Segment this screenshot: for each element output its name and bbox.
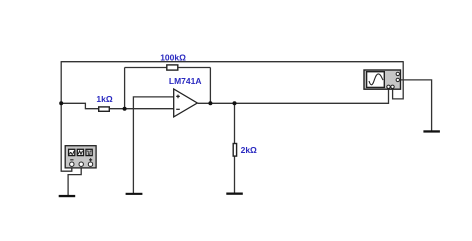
resistor 2k body xyxy=(233,144,236,157)
oscilloscope xyxy=(364,70,401,89)
node output feedback junction xyxy=(208,101,212,105)
wire feedback riser from inverting node xyxy=(124,68,126,109)
resistor 1k body xyxy=(99,107,110,111)
node input rail junction xyxy=(59,101,63,105)
svg-text:100kΩ: 100kΩ xyxy=(160,52,186,62)
ground under 2k resistor xyxy=(226,193,243,195)
op-amp LM741A triangle xyxy=(174,89,198,117)
wire scope ground terminal to right ground xyxy=(401,80,432,131)
wire rail to function generator minus terminal xyxy=(61,165,72,171)
wire feedback top horizontal through 100k xyxy=(125,67,211,69)
wire top horizontal from input rail to scope channel B xyxy=(61,61,403,63)
ground under op-amp non-inverting input xyxy=(126,193,143,195)
wire function generator common terminal to ground xyxy=(68,165,81,195)
wire feedback drop to output node xyxy=(209,68,211,104)
node output load junction xyxy=(233,101,237,105)
wire left input rail vertical xyxy=(60,61,62,171)
wire input jog to 1k resistor and op-amp inverting input xyxy=(61,103,174,108)
wire output to scope channel A xyxy=(198,88,389,104)
svg-text:2kΩ: 2kΩ xyxy=(241,145,257,155)
node inverting input junction xyxy=(123,107,127,111)
wire non-inverting input to ground xyxy=(133,97,174,194)
svg-text:LM741A: LM741A xyxy=(169,76,202,86)
svg-text:1kΩ: 1kΩ xyxy=(96,94,112,104)
ground under scope xyxy=(423,130,440,132)
function generator xyxy=(65,146,96,168)
resistor 100k body xyxy=(167,65,178,70)
wire scope channel B drop (right vertical, jog to bottom-right terminal) xyxy=(393,61,404,99)
wire 2k branch from output node to ground xyxy=(234,103,236,193)
ground under function generator xyxy=(59,195,75,197)
